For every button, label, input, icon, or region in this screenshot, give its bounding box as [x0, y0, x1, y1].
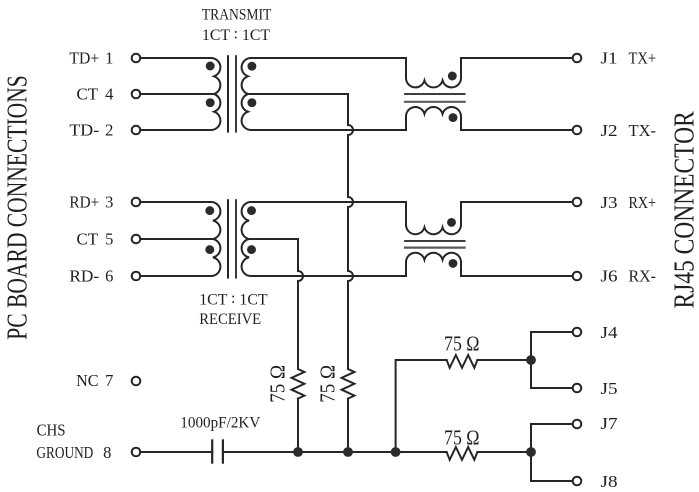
- wire node to J5: [531, 360, 573, 388]
- capacitor C1 1000pF/2KV: [211, 440, 213, 462]
- dot: [205, 245, 214, 254]
- transformer T2 core: [227, 200, 229, 277]
- wire node to J4: [531, 332, 573, 360]
- svg-text:J1: J1: [601, 49, 618, 68]
- pin 2 TD- terminal: [132, 126, 141, 135]
- svg-text:RECEIVE: RECEIVE: [199, 311, 261, 328]
- wire CT pin4 to T1 primary center tap: [140, 93, 214, 95]
- wire pin8 to capacitor C1: [140, 451, 212, 453]
- choke L2 top winding: [405, 202, 407, 225]
- choke L1 top winding right lead: [460, 58, 462, 78]
- svg-text:2: 2: [105, 121, 113, 140]
- dot: [449, 113, 458, 122]
- wire T1 secondary center tap to node: [248, 94, 353, 369]
- choke L1 top winding: [405, 58, 407, 78]
- pin 3 RD+ terminal: [132, 198, 141, 207]
- resistor R3 75ohm horizontal: [447, 355, 478, 368]
- dot: [247, 62, 256, 71]
- dot: [247, 245, 256, 254]
- pin J7 terminal: [573, 420, 582, 429]
- svg-text:1CT : 1CT: 1CT : 1CT: [199, 290, 268, 309]
- ground rail wire: [223, 451, 447, 453]
- wire R3 to J4/J5 node: [477, 359, 531, 361]
- svg-text:75 Ω: 75 Ω: [444, 332, 480, 356]
- junction node: [293, 447, 303, 457]
- svg-text:1000pF/2KV: 1000pF/2KV: [180, 414, 261, 431]
- svg-text:TX+: TX+: [629, 49, 657, 68]
- dot: [206, 98, 215, 107]
- svg-text:TX-: TX-: [629, 121, 657, 140]
- pin J3 terminal: [573, 198, 582, 207]
- junction node J4/J5: [526, 355, 536, 365]
- transformer T2 RECEIVE primary winding: [140, 202, 220, 276]
- wire J6 row: [461, 275, 573, 277]
- wire rail node up to R3: [396, 360, 447, 452]
- svg-text:RX+: RX+: [629, 193, 657, 212]
- pin J8 terminal: [573, 477, 582, 486]
- wire T2 secondary center tap to node: [248, 239, 303, 369]
- svg-text:PC BOARD CONNECTIONS: PC BOARD CONNECTIONS: [2, 75, 34, 340]
- wire node to J7: [531, 424, 573, 452]
- svg-text:3: 3: [105, 193, 113, 212]
- wire R4 to J7/J8 node: [477, 451, 531, 453]
- wire J1 row: [461, 57, 573, 59]
- pin J2 terminal: [573, 126, 582, 135]
- pin 8 chassis ground terminal: [132, 448, 141, 457]
- svg-text:7: 7: [105, 371, 113, 390]
- svg-text:TD+: TD+: [69, 48, 99, 67]
- svg-text:J2: J2: [601, 121, 618, 140]
- pin 6 RD- terminal: [132, 272, 141, 281]
- svg-text:J6: J6: [601, 267, 618, 286]
- svg-text:8: 8: [103, 443, 111, 462]
- choke L2 bottom winding right lead: [460, 262, 462, 276]
- dot: [448, 72, 457, 81]
- transformer T1 TRANSMIT primary winding: [140, 58, 220, 130]
- wire R2 to ground rail: [347, 399, 349, 452]
- svg-text:CT: CT: [77, 230, 99, 249]
- svg-text:TD-: TD-: [69, 121, 99, 140]
- pin J4 terminal: [573, 328, 582, 337]
- svg-text:RD-: RD-: [69, 266, 99, 285]
- svg-text:GROUND: GROUND: [36, 443, 93, 462]
- dot: [247, 98, 256, 107]
- dot: [247, 206, 256, 215]
- svg-text:6: 6: [105, 266, 113, 285]
- svg-text:J3: J3: [601, 193, 618, 212]
- dot: [449, 259, 458, 268]
- svg-text:RD+: RD+: [69, 193, 99, 212]
- svg-text:4: 4: [105, 84, 113, 103]
- choke L2 top winding right lead: [460, 202, 462, 225]
- wire J2 row: [461, 129, 573, 131]
- svg-text:CHS: CHS: [37, 421, 66, 440]
- pin 7 NC terminal: [132, 377, 141, 386]
- wire node to J8: [531, 452, 573, 481]
- resistor R2 75ohm vertical: [342, 369, 355, 399]
- pin J1 terminal: [573, 54, 582, 63]
- junction node J7/J8: [526, 447, 536, 457]
- svg-text:NC: NC: [76, 371, 99, 390]
- resistor R1 75ohm vertical: [292, 369, 305, 399]
- junction node: [391, 447, 401, 457]
- transformer T1 secondary winding: [242, 58, 406, 130]
- svg-text:J4: J4: [601, 323, 618, 342]
- wire J3 row: [461, 201, 573, 203]
- svg-text:J7: J7: [601, 414, 618, 433]
- dot: [206, 62, 215, 71]
- choke L2 core: [405, 240, 465, 242]
- pin J6 terminal: [573, 272, 582, 281]
- transformer T2 secondary winding: [242, 202, 406, 276]
- svg-text:J5: J5: [601, 379, 618, 398]
- svg-text:5: 5: [105, 230, 113, 249]
- wire R1 to ground rail: [297, 399, 299, 452]
- svg-text:75 Ω: 75 Ω: [266, 365, 290, 403]
- dot: [205, 206, 214, 215]
- svg-text:CT: CT: [77, 84, 99, 103]
- svg-text:75 Ω: 75 Ω: [444, 425, 480, 449]
- pin 5 CT terminal: [132, 235, 141, 244]
- pin J5 terminal: [573, 384, 582, 393]
- svg-text:75 Ω: 75 Ω: [316, 365, 340, 403]
- dot: [447, 218, 456, 227]
- svg-text:RX-: RX-: [629, 267, 657, 286]
- pin 4 CT terminal: [132, 90, 141, 99]
- svg-text:1CT : 1CT: 1CT : 1CT: [202, 25, 271, 44]
- choke L2 bottom winding: [405, 262, 407, 276]
- wire CT pin5 to T2 primary center tap: [140, 238, 214, 240]
- svg-text:RJ45 CONNECTOR: RJ45 CONNECTOR: [669, 111, 699, 309]
- svg-text:TRANSMIT: TRANSMIT: [202, 6, 272, 23]
- resistor R4 75ohm horizontal on rail: [447, 447, 478, 460]
- transformer T1 core: [227, 56, 229, 131]
- svg-text:J8: J8: [601, 472, 618, 491]
- choke L1 bottom winding right lead: [460, 116, 462, 130]
- choke L1 core: [405, 93, 465, 95]
- choke L1 bottom winding: [405, 116, 407, 130]
- junction node: [343, 447, 353, 457]
- pin 1 TD+ terminal: [132, 54, 141, 63]
- svg-text:1: 1: [105, 48, 113, 67]
